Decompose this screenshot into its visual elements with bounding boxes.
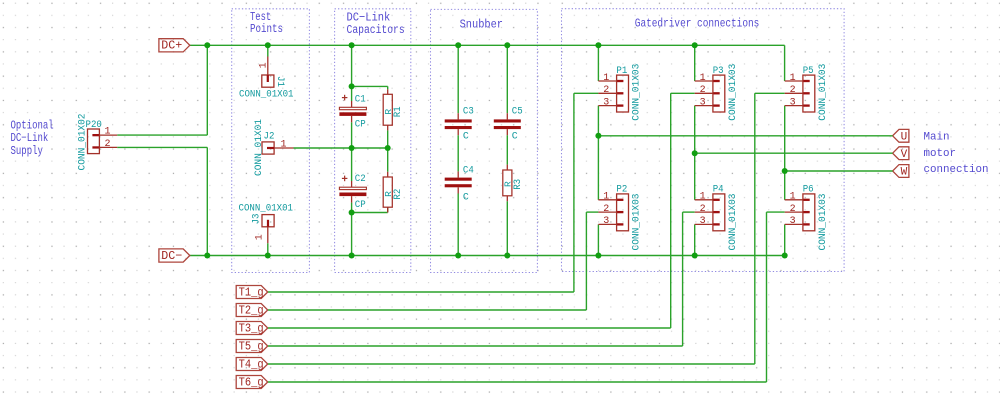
svg-text:3: 3: [700, 97, 706, 108]
svg-text:T3_g: T3_g: [239, 322, 264, 335]
svg-text:2: 2: [700, 204, 706, 215]
svg-text:CONN_01X03: CONN_01X03: [817, 64, 828, 121]
svg-text:C: C: [463, 130, 469, 141]
svg-text:P6: P6: [803, 185, 814, 196]
svg-text:CONN_01X03: CONN_01X03: [727, 193, 738, 250]
svg-text:R3: R3: [512, 179, 523, 190]
svg-text:1: 1: [255, 234, 266, 240]
svg-text:2: 2: [790, 204, 796, 215]
svg-text:C5: C5: [512, 106, 523, 117]
svg-text:3: 3: [700, 216, 706, 227]
svg-text:T5_g: T5_g: [239, 340, 264, 353]
svg-text:P20: P20: [86, 120, 102, 131]
svg-text:Optional: Optional: [11, 119, 54, 132]
svg-text:J3: J3: [252, 214, 263, 225]
svg-text:R2: R2: [392, 189, 403, 200]
svg-text:CONN_01X03: CONN_01X03: [727, 64, 738, 121]
svg-text:P1: P1: [616, 66, 627, 77]
svg-text:CONN_01X01: CONN_01X01: [239, 203, 294, 214]
svg-text:C2: C2: [355, 173, 366, 184]
svg-text:C4: C4: [463, 165, 474, 176]
svg-text:U: U: [901, 131, 908, 143]
svg-text:2: 2: [603, 204, 609, 215]
svg-text:P2: P2: [616, 185, 627, 196]
svg-text:1: 1: [700, 192, 706, 203]
svg-text:P3: P3: [713, 66, 724, 77]
svg-text:Main: Main: [924, 132, 950, 144]
svg-text:T1_g: T1_g: [239, 286, 264, 299]
svg-text:T4_g: T4_g: [239, 358, 264, 371]
svg-text:C3: C3: [463, 106, 474, 117]
svg-text:CP: CP: [355, 119, 366, 130]
svg-text:1: 1: [259, 62, 270, 68]
svg-text:Points: Points: [250, 22, 283, 36]
svg-text:Capacitors: Capacitors: [347, 23, 405, 37]
svg-text:CONN_01X03: CONN_01X03: [817, 193, 828, 250]
svg-text:T6_g: T6_g: [239, 376, 264, 389]
svg-text:J2: J2: [264, 132, 275, 143]
svg-text:2: 2: [603, 85, 609, 96]
svg-text:Snubber: Snubber: [460, 17, 503, 31]
svg-text:connection: connection: [924, 164, 989, 176]
svg-text:3: 3: [790, 216, 796, 227]
svg-text:1: 1: [104, 127, 110, 138]
svg-text:Gatedriver connections: Gatedriver connections: [635, 17, 760, 31]
svg-text:2: 2: [790, 85, 796, 96]
svg-text:1: 1: [790, 73, 796, 84]
svg-text:CONN_01X02: CONN_01X02: [76, 113, 87, 170]
svg-text:1: 1: [603, 192, 609, 203]
svg-text:CONN_01X03: CONN_01X03: [631, 193, 642, 250]
svg-text:C1: C1: [355, 93, 366, 104]
svg-text:CONN_01X03: CONN_01X03: [631, 64, 642, 121]
svg-text:C: C: [512, 130, 518, 141]
svg-text:C: C: [463, 192, 469, 203]
svg-text:1: 1: [281, 139, 287, 150]
svg-text:3: 3: [790, 97, 796, 108]
svg-text:1: 1: [790, 192, 796, 203]
svg-text:3: 3: [603, 97, 609, 108]
svg-text:J1: J1: [274, 76, 285, 87]
svg-text:DC−Link: DC−Link: [11, 132, 49, 145]
svg-text:CP: CP: [355, 199, 366, 210]
svg-text:CONN_01X01: CONN_01X01: [239, 88, 294, 99]
svg-text:W: W: [901, 167, 908, 179]
svg-text:2: 2: [104, 139, 110, 150]
svg-text:3: 3: [603, 216, 609, 227]
svg-text:DC+: DC+: [161, 39, 182, 53]
svg-text:1: 1: [700, 73, 706, 84]
svg-text:2: 2: [700, 85, 706, 96]
svg-text:V: V: [901, 149, 908, 161]
svg-text:motor: motor: [924, 148, 957, 160]
svg-text:P5: P5: [803, 66, 814, 77]
svg-text:1: 1: [603, 73, 609, 84]
svg-text:T2_g: T2_g: [239, 304, 264, 317]
svg-text:DC−: DC−: [161, 249, 182, 263]
svg-text:Supply: Supply: [11, 145, 43, 158]
svg-text:R1: R1: [392, 106, 403, 117]
svg-text:CONN_01X01: CONN_01X01: [253, 119, 264, 176]
svg-text:P4: P4: [713, 185, 724, 196]
